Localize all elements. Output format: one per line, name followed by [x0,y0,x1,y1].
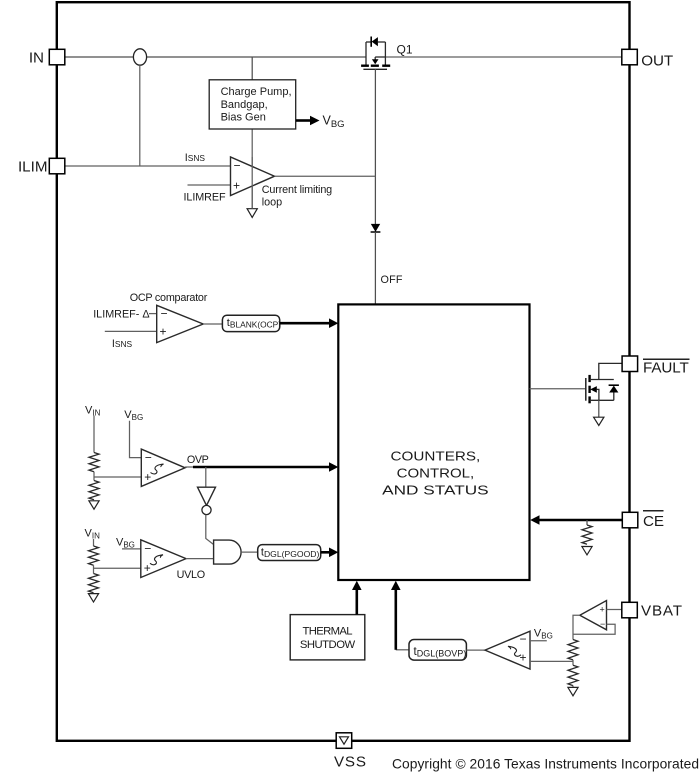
inverter (OVP to AND gate) [198,487,216,514]
wire AND gate to deglitch timer [241,551,258,553]
resistor VBAT divider lower [568,665,578,685]
wire buffer output down to divider [573,615,580,639]
svg-text:OVP: OVP [187,454,209,466]
Q1 channel contact bars [361,64,369,66]
pin ILIM [49,158,65,174]
wire buffer feedback loop [573,624,615,634]
wire charge pump bias down through comparator to ground [251,129,253,209]
svg-text:loop: loop [262,196,282,208]
ground UVLO divider [88,594,98,602]
timer tDGL(PGOOD) [258,545,321,561]
ground CE pulldown [582,547,592,555]
wire OVP to inverter [205,467,207,487]
svg-text:Bandgap,: Bandgap, [221,99,268,111]
resistor OVP divider lower [89,481,99,500]
body arrow [590,386,597,393]
svg-text:SHUTDOW: SHUTDOW [300,639,356,651]
wire CE pin to counters block (arrow left) [530,515,622,525]
svg-text:Q1: Q1 [397,42,413,56]
ground VBAT divider [568,687,578,695]
wire VBG to OVP minus input [130,421,142,458]
wire VIN to resistor [93,416,95,453]
wire from sense element down to ILIM rail [139,65,141,166]
wire VIN to resistor [93,539,95,546]
pin FAULT [622,356,638,372]
svg-text:ILIMREF- Δ: ILIMREF- Δ [93,308,149,320]
pin VBAT [622,602,638,618]
op-amp current limit comparator [184,152,333,208]
svg-text:VBAT: VBAT [641,603,682,620]
wire UVLO comparator to AND gate [186,558,214,560]
op-amp OVP comparator [141,449,185,486]
wire CE pulldown stub [586,520,588,525]
ground OVP divider [89,501,99,509]
wire source to ground [598,400,600,417]
wire OVP comparator to counters block (arrow) [185,466,194,468]
svg-text:+: + [233,179,240,193]
svg-text:ISNS: ISNS [112,338,133,350]
svg-text:−: − [234,159,241,173]
svg-text:tDGL(PGOOD): tDGL(PGOOD) [261,546,320,559]
svg-text:IN: IN [29,50,44,67]
svg-text:−: − [600,619,605,629]
wire to divider node [93,472,95,481]
wire OFF node into counters block [374,232,376,304]
svg-text:Charge Pump,: Charge Pump, [221,86,292,98]
svg-text:Copyright © 2016 Texas Instrum: Copyright © 2016 Texas Instruments Incor… [392,757,699,772]
wire OCP comparator to blanking timer [203,323,222,325]
svg-text:Bias Gen: Bias Gen [221,111,266,123]
counters control and status block [338,304,529,580]
svg-text:Current limiting: Current limiting [262,184,333,196]
svg-text:tBLANK(OCP): tBLANK(OCP) [227,317,281,330]
AND gate U2 [214,540,242,564]
op-amp BOVP comparator (points left) [485,631,530,669]
svg-text:−: − [144,542,151,556]
svg-text:OFF: OFF [381,274,403,286]
resistor CE pulldown [582,525,592,544]
svg-text:+: + [144,561,151,575]
svg-text:ILIMREF: ILIMREF [184,192,226,204]
transistor Q1 (PMOS pass FET with body diode) [361,37,413,70]
wire ILIMREF stub into current limit comparator [188,184,231,186]
svg-text:−: − [145,451,152,465]
timer tBLANK(OCP) [222,315,281,331]
wire counters block to FAULT transistor gate [530,388,586,390]
wire PGOOD timer to counters block (arrow) [321,548,339,558]
svg-text:VSS: VSS [334,753,366,770]
svg-text:FAULT: FAULT [643,359,689,376]
resistor UVLO divider lower [89,574,99,593]
svg-text:THERMAL: THERMAL [303,626,353,638]
svg-text:OCP comparator: OCP comparator [130,292,208,304]
body diode of Q1 [370,37,372,47]
resistor VBAT divider upper [568,640,578,660]
wire current limit comparator output to Q1 gate line [275,175,376,177]
resistor UVLO divider upper [89,546,99,565]
Q1 body/source connection arrow [375,56,385,58]
op-amp UVLO comparator [141,540,205,581]
wire OUT rail from Q1 to OUT pin [385,56,621,58]
resistor OVP divider upper [89,453,99,472]
svg-text:−: − [520,632,527,646]
timer tDGL(BOVP) [409,640,466,661]
current sense element on IN rail [133,49,146,65]
Q1 gate bar [363,68,387,70]
wire IN rail from pin to Q1 source [65,56,134,58]
svg-text:CE: CE [643,513,664,530]
svg-text:+: + [144,470,151,484]
wire charge pump bias crossing comparator to ground [251,157,253,209]
wire thermal shutdown to counters block (arrow up) [352,581,362,615]
wire inverter to AND gate [206,515,214,545]
outer device boundary box [57,2,630,741]
wire IN rail down to charge pump [251,57,253,80]
svg-text:+: + [160,325,167,339]
drain wire up to FAULT pin [590,379,614,381]
wire VBG to BOVP minus input [530,640,547,642]
svg-text:UVLO: UVLO [177,569,206,581]
svg-text:CONTROL,: CONTROL, [397,466,475,481]
transistor FAULT open-drain NMOS with body diode [586,363,622,425]
thermal shutdown block [290,615,365,660]
diode on OFF line [371,224,380,232]
pin VSS with ground mark [336,733,352,749]
pin IN [49,49,65,65]
wire divider node to UVLO plus input [94,567,141,569]
source wire [590,399,614,401]
wire BOVP comparator output to timer [466,649,485,651]
svg-text:+: + [600,605,605,615]
wire Q1 gate down to OFF node [374,69,376,224]
wire BOVP plus input to VBAT divider node [530,660,573,662]
svg-text:COUNTERS,: COUNTERS, [391,448,481,463]
wire divider node to OVP plus input [94,476,141,478]
pin OUT [622,49,638,65]
wire to divider node [93,565,95,573]
wire VBAT pin to buffer plus input [607,609,622,611]
wire to divider node [572,660,574,665]
charge pump block [209,80,296,129]
wire to ground [572,686,574,688]
svg-text:ILIM: ILIM [18,159,48,176]
svg-text:+: + [520,651,527,665]
OCP comparator [93,292,207,350]
wire OCP timer to counters block (arrow) [280,318,339,328]
wire ILIM rail (ISNS) to current limit comparator [65,165,231,167]
wire VBG to UVLO minus input [122,548,141,550]
op-amp VBAT sense buffer (points left) [580,601,607,630]
svg-text:AND STATUS: AND STATUS [382,483,489,498]
ground below current limit comparator [247,209,257,218]
wire BOVP timer to counters block (arrow up) [396,649,409,651]
pin CE [622,512,638,528]
svg-text:ISNS: ISNS [185,152,206,164]
body diode of FAULT transistor [609,384,619,386]
ground FAULT transistor [594,417,604,425]
svg-text:tDGL(BOVP): tDGL(BOVP) [414,646,467,659]
svg-text:−: − [161,307,168,321]
VBG output arrow from charge pump [296,114,345,131]
svg-text:OUT: OUT [641,53,673,70]
